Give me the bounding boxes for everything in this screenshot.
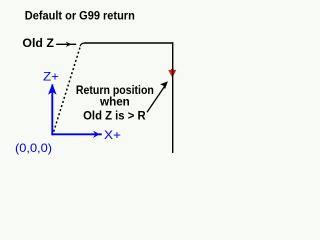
- diagram: G99 drilling-cycle return illustration: [0, 0, 202, 163]
- svg-text:(0,0,0): (0,0,0): [15, 141, 52, 155]
- wire: dashed rapid path from origin: [53, 48, 80, 135]
- Old Z pointer arrow: [56, 42, 76, 47]
- Z axis (blue): [48, 84, 57, 136]
- svg-text:Old Z is > R: Old Z is > R: [83, 108, 146, 122]
- svg-text:Old Z: Old Z: [22, 36, 54, 50]
- red return-position arrowhead: [168, 69, 176, 78]
- wire: old-Z level line (tool path horizontal): [84, 42, 173, 44]
- svg-text:Default or G99 return: Default or G99 return: [25, 9, 135, 23]
- svg-text:X+: X+: [104, 128, 121, 142]
- annotation pointer arrow (diagonal): [147, 81, 168, 112]
- svg-text:when: when: [99, 95, 130, 109]
- wire: plunge vertical line: [172, 42, 174, 153]
- svg-text:Z+: Z+: [43, 70, 59, 84]
- wire: corner hook: [80, 43, 84, 46]
- X axis (blue): [52, 131, 102, 138]
